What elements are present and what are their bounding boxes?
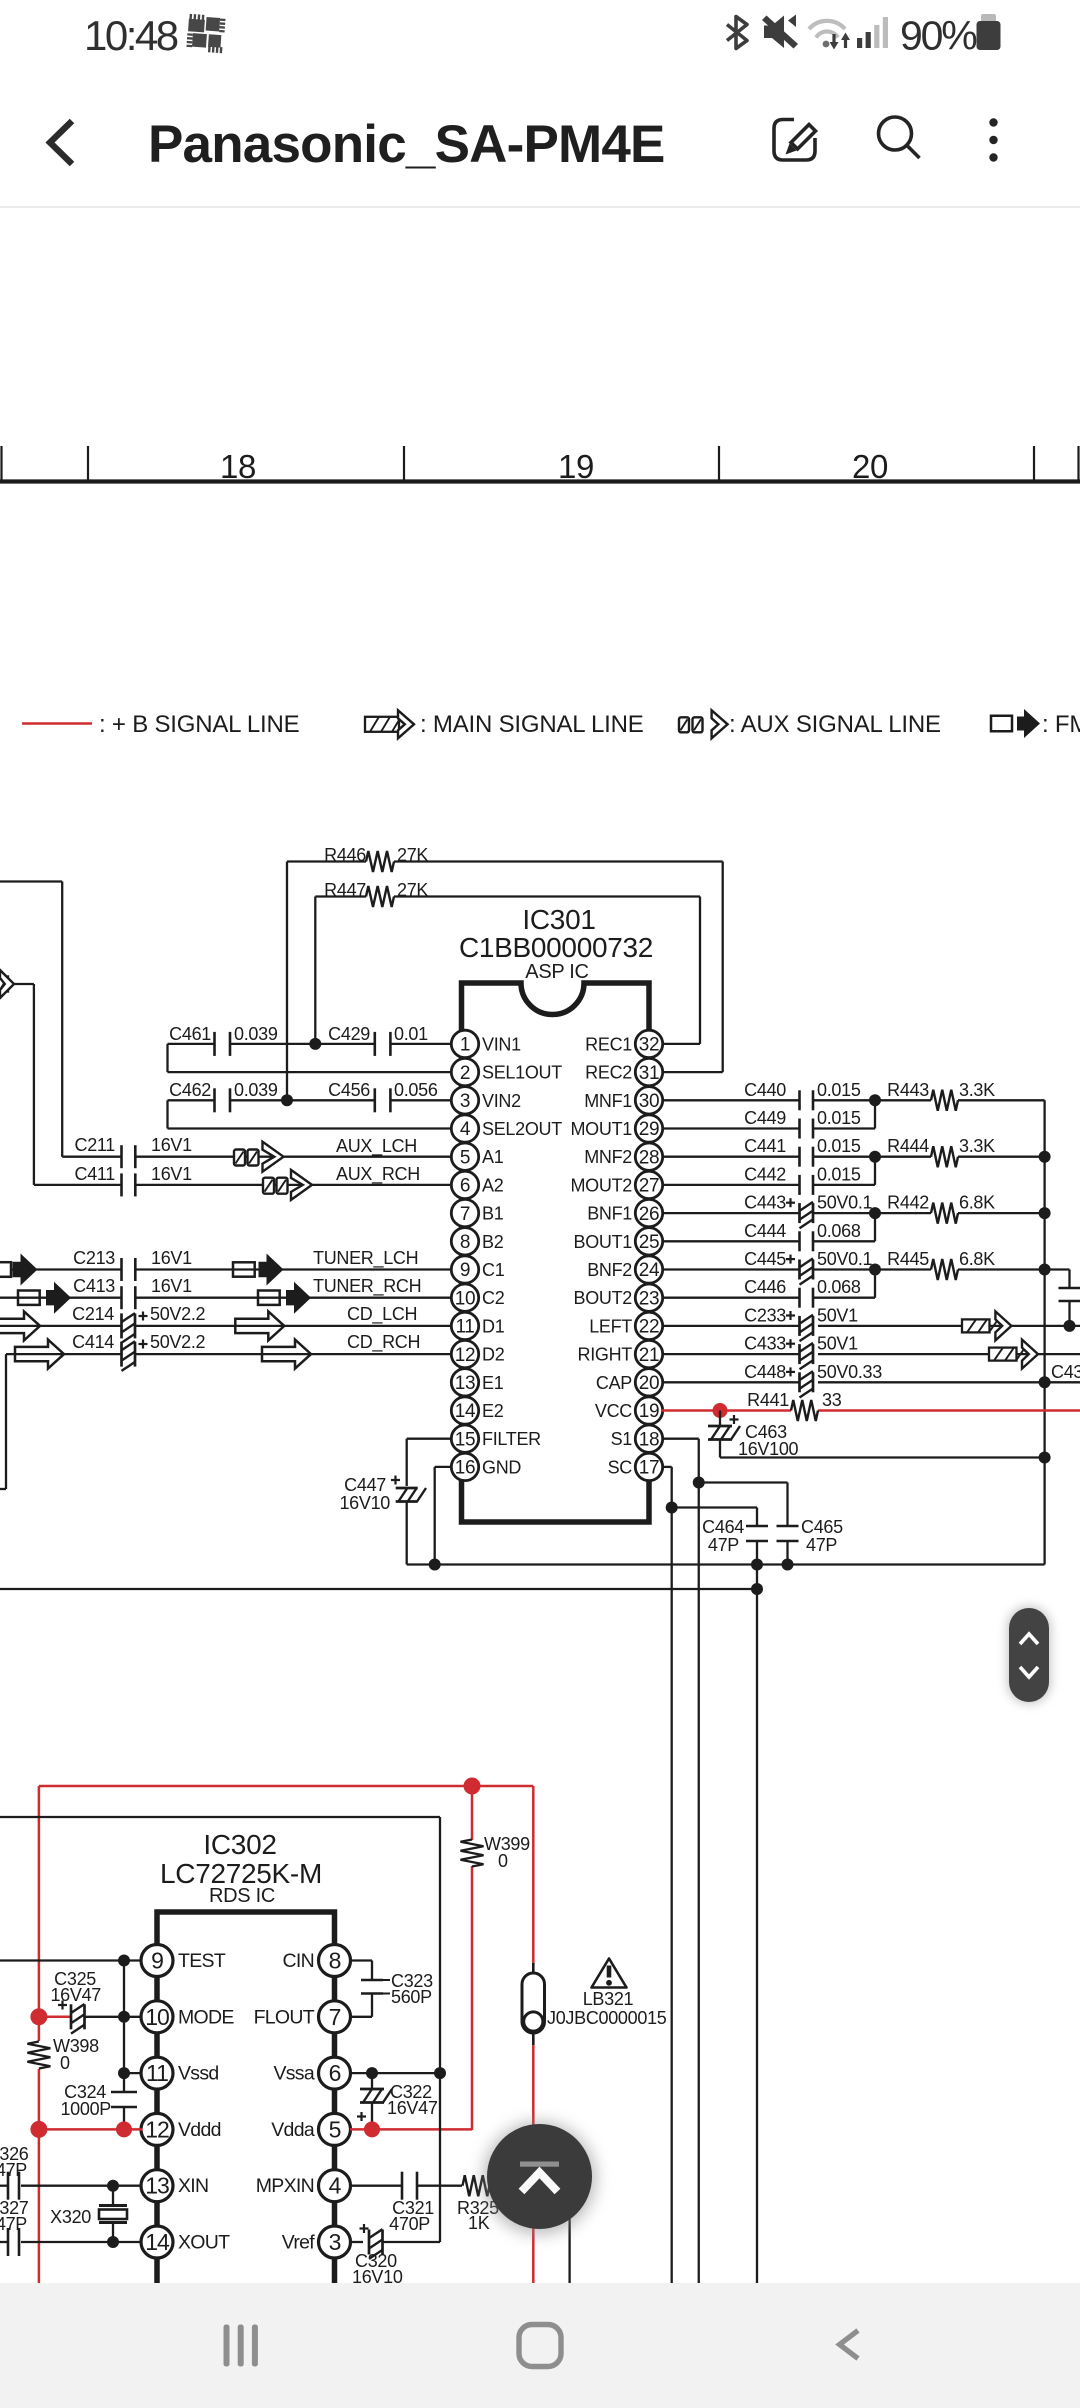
- svg-text:0.068: 0.068: [817, 1221, 861, 1241]
- svg-text:BOUT1: BOUT1: [573, 1232, 632, 1252]
- nav recents icon: [224, 2325, 258, 2367]
- capacitor C233 50V1: [662, 1305, 858, 1341]
- svg-text:A1: A1: [482, 1147, 504, 1167]
- capacitor C464 47P: [702, 1517, 768, 2283]
- signal bars: [857, 17, 888, 48]
- capacitor C325 16V47: [39, 1969, 143, 2034]
- CD hollow arrow left (CD_LCH): [0, 1311, 40, 1340]
- MAIN arrow icon (RIGHT): [989, 1340, 1038, 1369]
- svg-text:47P: 47P: [806, 1535, 837, 1555]
- svg-text:C1: C1: [482, 1260, 505, 1280]
- scroll to top FAB: [484, 2122, 596, 2234]
- IC301 pin 17 (SC): [608, 1453, 663, 1480]
- svg-text:3: 3: [329, 2229, 341, 2255]
- IC301 pin 7 (B1): [451, 1199, 503, 1226]
- resistor W398 0: [27, 2036, 99, 2073]
- svg-text:7: 7: [329, 2004, 341, 2030]
- junction bus/R442: [1039, 1207, 1051, 1219]
- legend FM icon: [991, 709, 1040, 738]
- capacitor C446 0.068: [662, 1277, 861, 1308]
- IC301 pin 30 (MNF1): [584, 1087, 663, 1114]
- red W399 vertical: [471, 1786, 474, 1840]
- svg-text:VIN2: VIN2: [482, 1091, 521, 1111]
- red +B left vertical: [38, 1786, 41, 2041]
- junction red top / W399 branch: [464, 1778, 481, 1795]
- junction XOUT/X320: [107, 2236, 119, 2248]
- svg-text:33: 33: [822, 1390, 842, 1410]
- wire CIN loop: [350, 1959, 372, 1961]
- IC301 pin 27 (MOUT2): [570, 1171, 662, 1198]
- MAIN arrow icon (LEFT): [962, 1311, 1011, 1340]
- svg-text:TUNER_RCH: TUNER_RCH: [313, 1276, 421, 1297]
- IC302 pin 5 (Vdda): [271, 2113, 350, 2145]
- svg-text:Vdda: Vdda: [271, 2119, 315, 2141]
- svg-text:Vref: Vref: [282, 2232, 316, 2254]
- svg-text:D1: D1: [482, 1316, 505, 1336]
- svg-text:XOUT: XOUT: [178, 2232, 230, 2254]
- svg-text:13: 13: [145, 2173, 169, 2199]
- wire MPXIN row: [350, 2185, 402, 2187]
- svg-text:C445: C445: [744, 1249, 786, 1269]
- IC301 pin 3 (VIN2): [451, 1087, 521, 1114]
- IC301 pin 20 (CAP): [596, 1369, 663, 1396]
- red LB321 vertical: [532, 1786, 535, 1966]
- battery icon: [981, 14, 996, 22]
- junction red/Vddd: [30, 2121, 47, 2138]
- svg-text:3.3K: 3.3K: [959, 1136, 995, 1156]
- wire R446 right to pin31 net: [722, 862, 724, 1073]
- wire Vdda red row: [350, 2128, 472, 2131]
- junction Vssa/C322: [366, 2067, 378, 2079]
- svg-text:3.3K: 3.3K: [959, 1080, 995, 1100]
- wire R447 left to VIN1 node: [314, 897, 316, 1044]
- svg-text:REC2: REC2: [585, 1063, 632, 1083]
- svg-text:0.015: 0.015: [817, 1164, 861, 1184]
- capacitor C320 16V10: [352, 2224, 440, 2287]
- junction rail/C464 vertical: [751, 1583, 763, 1595]
- junction gnd/GND pin: [429, 1559, 441, 1571]
- ground rail y=1564: [407, 1563, 1045, 1565]
- junction C325/rail: [118, 2011, 130, 2023]
- svg-text:AUX_LCH: AUX_LCH: [336, 1136, 417, 1157]
- svg-text:C441: C441: [744, 1136, 786, 1156]
- svg-text:: FM: : FM: [1042, 711, 1080, 738]
- border tick x=1: [0, 446, 2, 481]
- svg-text:FILTER: FILTER: [482, 1429, 541, 1449]
- svg-text:J0JBC0000015: J0JBC0000015: [547, 2008, 667, 2028]
- svg-text:24: 24: [639, 1260, 660, 1281]
- junction node VCC/C463 (red): [713, 1403, 728, 1418]
- IC302 pin 9 (TEST): [141, 1945, 226, 1977]
- junction bus/R445: [1039, 1264, 1051, 1276]
- svg-text:10: 10: [145, 2004, 169, 2030]
- svg-text:0.056: 0.056: [394, 1080, 438, 1100]
- wire LEFT row (pin22): [818, 1325, 1080, 1327]
- svg-text:B1: B1: [482, 1204, 504, 1224]
- svg-text:CD_LCH: CD_LCH: [347, 1304, 417, 1325]
- capacitor C442 0.015: [662, 1164, 861, 1195]
- svg-text:C233: C233: [744, 1305, 786, 1325]
- svg-text:B2: B2: [482, 1232, 504, 1252]
- junction node VIN1/R447: [309, 1038, 321, 1050]
- svg-text:IC302: IC302: [203, 1829, 276, 1860]
- svg-text:C433: C433: [744, 1334, 786, 1354]
- capacitor C456 0.056: [328, 1080, 451, 1112]
- edit (compose) icon: [774, 120, 816, 161]
- svg-text:16V47: 16V47: [387, 2098, 438, 2118]
- svg-text:BOUT2: BOUT2: [573, 1288, 632, 1308]
- svg-text:50V0.1: 50V0.1: [817, 1249, 873, 1269]
- svg-text:14: 14: [455, 1401, 476, 1422]
- svg-text:MPXIN: MPXIN: [256, 2175, 314, 2197]
- wire C463 gnd to bus: [720, 1456, 1045, 1458]
- svg-text:16V1: 16V1: [151, 1276, 192, 1296]
- svg-text:50V1: 50V1: [817, 1334, 858, 1354]
- junction bus/C463: [1039, 1452, 1051, 1464]
- IC301 body outline: [462, 983, 650, 1522]
- svg-text:4: 4: [460, 1119, 471, 1140]
- svg-text:0.039: 0.039: [234, 1024, 278, 1044]
- FM arrow icon mid (TUNER_LCH): [233, 1254, 284, 1286]
- capacitor C461 0.039: [168, 1024, 375, 1056]
- svg-text:16V1: 16V1: [151, 1135, 192, 1155]
- svg-text:18: 18: [639, 1429, 660, 1450]
- svg-text:Vddd: Vddd: [178, 2119, 221, 2141]
- svg-text:27: 27: [639, 1176, 660, 1197]
- svg-text:C43: C43: [1051, 1362, 1080, 1382]
- IC302 pin 13 (XIN): [141, 2170, 208, 2202]
- wire R442 row pair: [813, 1212, 875, 1214]
- svg-text:16V47: 16V47: [50, 1985, 101, 2005]
- IC301 pin 29 (MOUT1): [570, 1115, 662, 1142]
- CD hollow arrow mid (CD_LCH): [235, 1311, 284, 1340]
- warning triangle: [592, 1959, 627, 1988]
- wire XOUT row: [21, 2241, 143, 2243]
- capacitor C448 50V0.33: [662, 1362, 882, 1398]
- svg-text:20: 20: [852, 448, 888, 485]
- IC301 pin 2 (SEL1OUT): [451, 1058, 562, 1085]
- svg-text:C413: C413: [73, 1276, 115, 1296]
- svg-text:0: 0: [60, 2053, 70, 2073]
- wire R443 row pair: [813, 1099, 875, 1101]
- capacitor C440 0.015: [662, 1080, 861, 1111]
- svg-text:0: 0: [498, 1851, 508, 1871]
- wire Vref row: [350, 2241, 363, 2243]
- FM arrow at left edge (TUNER_LCH): [0, 1254, 38, 1286]
- resistor R447 27K: [315, 880, 700, 907]
- capacitor at right edge: [1045, 1268, 1070, 1270]
- svg-text:GND: GND: [482, 1457, 521, 1477]
- IC302 pin 3 (Vref): [282, 2226, 351, 2258]
- svg-text:47P: 47P: [0, 2160, 27, 2180]
- wire R445 row pair: [813, 1268, 875, 1270]
- svg-text:REC1: REC1: [585, 1034, 632, 1054]
- wifi icon: [809, 21, 845, 38]
- svg-text:32: 32: [639, 1035, 660, 1056]
- border tick x=404: [403, 446, 405, 481]
- red +B top line: [39, 1785, 533, 1788]
- svg-text:4: 4: [329, 2173, 342, 2199]
- wire Vddd red row: [39, 2128, 143, 2131]
- IC301 pin 21 (RIGHT): [578, 1340, 663, 1367]
- svg-text:C429: C429: [328, 1024, 370, 1044]
- svg-text:50V2.2: 50V2.2: [150, 1332, 206, 1352]
- wire Vssa row: [350, 2072, 440, 2074]
- svg-text:0.068: 0.068: [817, 1277, 861, 1297]
- IC302 pin 7 (FLOUT): [254, 2001, 351, 2033]
- svg-text:VIN1: VIN1: [482, 1034, 521, 1054]
- capacitor C321 470P: [389, 2172, 462, 2234]
- capacitor C444 0.068: [662, 1221, 861, 1252]
- svg-text:30: 30: [639, 1091, 660, 1112]
- svg-text:TEST: TEST: [178, 1950, 226, 1972]
- svg-text:AUX_RCH: AUX_RCH: [336, 1164, 420, 1185]
- bluetooth icon: [727, 17, 747, 49]
- capacitor C411 16V1: [34, 1164, 451, 1196]
- wire R446 left to VIN2 node: [286, 862, 288, 1101]
- svg-text:C444: C444: [744, 1221, 786, 1241]
- IC302 pin 14 (XOUT): [141, 2226, 230, 2258]
- wire left arrow to C411: [14, 983, 34, 985]
- svg-text:11: 11: [146, 2060, 168, 2086]
- junction bus/R444: [1039, 1151, 1051, 1163]
- box vertical to Vref: [439, 2073, 441, 2242]
- svg-text:29: 29: [639, 1119, 660, 1140]
- capacitor C463 16V100: [708, 1411, 799, 1460]
- svg-text:C440: C440: [744, 1080, 786, 1100]
- black box wire top y=1817: [0, 1816, 440, 1818]
- IC302 body outline: [157, 1912, 335, 2283]
- svg-text:5: 5: [329, 2116, 341, 2142]
- svg-text:: + B SIGNAL LINE: : + B SIGNAL LINE: [99, 711, 299, 738]
- capacitor C462 0.039: [168, 1080, 375, 1112]
- IC301 pin 18 (S1): [611, 1425, 663, 1452]
- IC302 pin 10 (MODE): [141, 2001, 234, 2033]
- capacitor C449 0.015: [662, 1108, 861, 1139]
- svg-text:23: 23: [639, 1288, 660, 1309]
- crystal X320: [50, 2186, 127, 2242]
- junction right-edge cap / LEFT row: [1064, 1320, 1076, 1332]
- svg-text:FLOUT: FLOUT: [254, 2006, 315, 2028]
- svg-text:6.8K: 6.8K: [959, 1193, 995, 1213]
- svg-text:E2: E2: [482, 1401, 504, 1421]
- svg-text:C2: C2: [482, 1288, 505, 1308]
- svg-text:14: 14: [145, 2229, 170, 2255]
- CD hollow arrow left (CD_RCH): [15, 1340, 64, 1369]
- svg-text:0.01: 0.01: [394, 1024, 428, 1044]
- AUX arrow icon (AUX_LCH): [234, 1142, 284, 1172]
- svg-text:CIN: CIN: [283, 1950, 314, 1972]
- resistor R444 3.3K: [875, 1136, 1045, 1167]
- search icon: [879, 117, 912, 150]
- junction gnd/C464: [751, 1559, 763, 1571]
- svg-text:MNF2: MNF2: [584, 1147, 632, 1167]
- svg-text:C462: C462: [169, 1080, 211, 1100]
- mute icon: [762, 15, 798, 49]
- wire stub top-left to C211: [0, 880, 62, 882]
- right bus vertical: [1043, 1100, 1045, 1564]
- svg-text:50V1: 50V1: [817, 1305, 858, 1325]
- IC301 pin 26 (BNF1): [587, 1199, 663, 1226]
- svg-text:R442: R442: [887, 1193, 929, 1213]
- IC301 pin 16 (GND): [451, 1453, 521, 1480]
- svg-text:E1: E1: [482, 1373, 504, 1393]
- svg-text:SEL1OUT: SEL1OUT: [482, 1063, 562, 1083]
- IC301 pin 8 (B2): [451, 1228, 503, 1255]
- junction node R443: [869, 1094, 881, 1106]
- junction node R444: [869, 1151, 881, 1163]
- svg-text:0.015: 0.015: [817, 1080, 861, 1100]
- svg-text:R441: R441: [747, 1390, 789, 1410]
- capacitor C465 47P: [777, 1517, 844, 1565]
- IC301 pin 1 (VIN1): [451, 1030, 521, 1057]
- IC301 pin 5 (A1): [451, 1143, 503, 1170]
- wire pin31 REC2 stub: [662, 1071, 723, 1073]
- legend AUX signal icon: [679, 710, 728, 738]
- svg-text:9: 9: [460, 1260, 470, 1281]
- resistor R441 33: [747, 1390, 842, 1421]
- svg-text:16V1: 16V1: [151, 1248, 192, 1268]
- capacitor C445 50V0.1: [662, 1249, 873, 1285]
- capacitor C326 47P: [0, 2144, 29, 2200]
- wire Vssd stub: [124, 2072, 143, 2074]
- CD hollow arrow mid (CD_RCH): [262, 1340, 311, 1369]
- svg-text:C464: C464: [702, 1517, 744, 1537]
- border tick x=1078: [1077, 446, 1079, 481]
- svg-text:50V0.1: 50V0.1: [817, 1193, 873, 1213]
- wire pin4 SEL2OUT to C462: [168, 1127, 452, 1129]
- svg-text:C442: C442: [744, 1164, 786, 1184]
- IC301 pin 14 (E2): [451, 1397, 503, 1424]
- svg-text:0.015: 0.015: [817, 1136, 861, 1156]
- capacitor C323 560P: [361, 1971, 433, 2007]
- wire left edge L to CD_RCH: [5, 1354, 7, 1489]
- svg-text:TUNER_LCH: TUNER_LCH: [313, 1248, 418, 1269]
- navigation bar: [0, 2283, 1080, 2408]
- svg-text:470P: 470P: [389, 2214, 430, 2234]
- svg-text:C213: C213: [73, 1248, 115, 1268]
- IC302 pin 8 (CIN): [283, 1945, 351, 1977]
- IC301 pin 15 (FILTER): [451, 1425, 541, 1452]
- resistor W399 0: [461, 1834, 531, 1871]
- svg-text:RDS IC: RDS IC: [209, 1885, 275, 1907]
- svg-text:C448: C448: [744, 1362, 786, 1382]
- IC301 pin 10 (C2): [451, 1284, 504, 1311]
- svg-text:SC: SC: [608, 1457, 633, 1477]
- svg-text:D2: D2: [482, 1345, 505, 1365]
- IC301 pin 31 (REC2): [585, 1058, 663, 1085]
- FM arrow left (TUNER_RCH): [18, 1282, 71, 1314]
- IC301 pin 11 (D1): [451, 1312, 504, 1339]
- svg-text:1000P: 1000P: [60, 2099, 111, 2119]
- svg-text:16V1: 16V1: [151, 1164, 192, 1184]
- svg-text:MNF1: MNF1: [584, 1091, 632, 1111]
- svg-text:Vssa: Vssa: [273, 2063, 314, 2085]
- border tick x=719: [718, 446, 720, 481]
- svg-text:1K: 1K: [468, 2213, 490, 2233]
- svg-text:31: 31: [639, 1063, 660, 1084]
- svg-text:19: 19: [639, 1401, 660, 1422]
- border tick x=1034: [1033, 446, 1035, 481]
- svg-text:6: 6: [460, 1176, 470, 1197]
- svg-text:C446: C446: [744, 1277, 786, 1297]
- capacitor C447 16V10: [339, 1475, 426, 1565]
- svg-text:9: 9: [151, 1948, 163, 1974]
- junction gnd/C465: [782, 1559, 794, 1571]
- junction Vssd/rail: [118, 2067, 130, 2079]
- junction Vssa/box vertical: [434, 2067, 446, 2079]
- svg-text:C214: C214: [72, 1304, 114, 1324]
- svg-text:19: 19: [558, 448, 594, 485]
- svg-text:A2: A2: [482, 1175, 504, 1195]
- svg-text:MOUT1: MOUT1: [570, 1119, 632, 1139]
- capacitor C214 50V2.2 polarized: [0, 1304, 451, 1343]
- svg-text:7: 7: [460, 1204, 470, 1225]
- svg-text:22: 22: [639, 1317, 660, 1338]
- svg-text:0.015: 0.015: [817, 1108, 861, 1128]
- wire pin32 REC1 stub: [662, 1043, 700, 1045]
- IC302 pin 12 (Vddd): [141, 2113, 221, 2145]
- IC301 pin 28 (MNF2): [584, 1143, 663, 1170]
- legend MAIN signal icon: [365, 710, 414, 738]
- svg-text:90%: 90%: [900, 13, 976, 59]
- junction node R442: [869, 1207, 881, 1219]
- svg-text:5: 5: [460, 1147, 470, 1168]
- svg-text:26: 26: [639, 1204, 660, 1225]
- svg-text:C414: C414: [72, 1332, 114, 1352]
- wire SC (pin17): [662, 1466, 672, 1468]
- svg-text:RIGHT: RIGHT: [578, 1345, 633, 1365]
- svg-text:20: 20: [639, 1373, 660, 1394]
- vertical junction rail x=124: [123, 1961, 125, 2093]
- app bar separator: [0, 206, 1080, 208]
- IC301 pin 32 (REC1): [585, 1030, 663, 1057]
- junction TEST/vertical: [118, 1955, 130, 1967]
- IC302 pin 6 (Vssa): [273, 2057, 350, 2089]
- wire MPXIN down right of FAB: [568, 2186, 570, 2283]
- wire R444 row pair: [813, 1156, 875, 1158]
- junction XIN/X320: [107, 2180, 119, 2192]
- svg-text:C465: C465: [801, 1517, 843, 1537]
- svg-text:C461: C461: [169, 1024, 211, 1044]
- wire TEST row to left edge: [0, 1959, 143, 1961]
- IC301 pin 9 (C1): [451, 1256, 504, 1283]
- wire RIGHT row (pin21): [818, 1353, 1080, 1355]
- svg-text:10: 10: [455, 1288, 476, 1309]
- svg-text:MOUT2: MOUT2: [570, 1175, 632, 1195]
- junction bus/CAP row: [1039, 1376, 1051, 1388]
- svg-text:IC301: IC301: [522, 904, 595, 935]
- wire VCC red line: [662, 1409, 791, 1412]
- long rail y=1589: [0, 1588, 757, 1590]
- overflow menu icon: [989, 118, 997, 161]
- svg-text:ASP IC: ASP IC: [525, 961, 588, 983]
- resistor R325 1K: [457, 2175, 570, 2233]
- resistor R443 3.3K: [875, 1080, 1045, 1111]
- svg-text:R443: R443: [887, 1080, 929, 1100]
- svg-text:47P: 47P: [708, 1535, 739, 1555]
- screenshot notification icon: [186, 14, 225, 53]
- svg-text:47P: 47P: [0, 2214, 27, 2234]
- svg-text:12: 12: [455, 1345, 476, 1366]
- svg-text:1: 1: [460, 1035, 470, 1056]
- svg-text:15: 15: [455, 1429, 476, 1450]
- svg-text:21: 21: [639, 1345, 660, 1366]
- capacitor C433 50V1: [662, 1334, 858, 1370]
- svg-text:SEL2OUT: SEL2OUT: [482, 1119, 562, 1139]
- svg-text:0.039: 0.039: [234, 1080, 278, 1100]
- resistor R445 6.8K: [875, 1249, 1045, 1280]
